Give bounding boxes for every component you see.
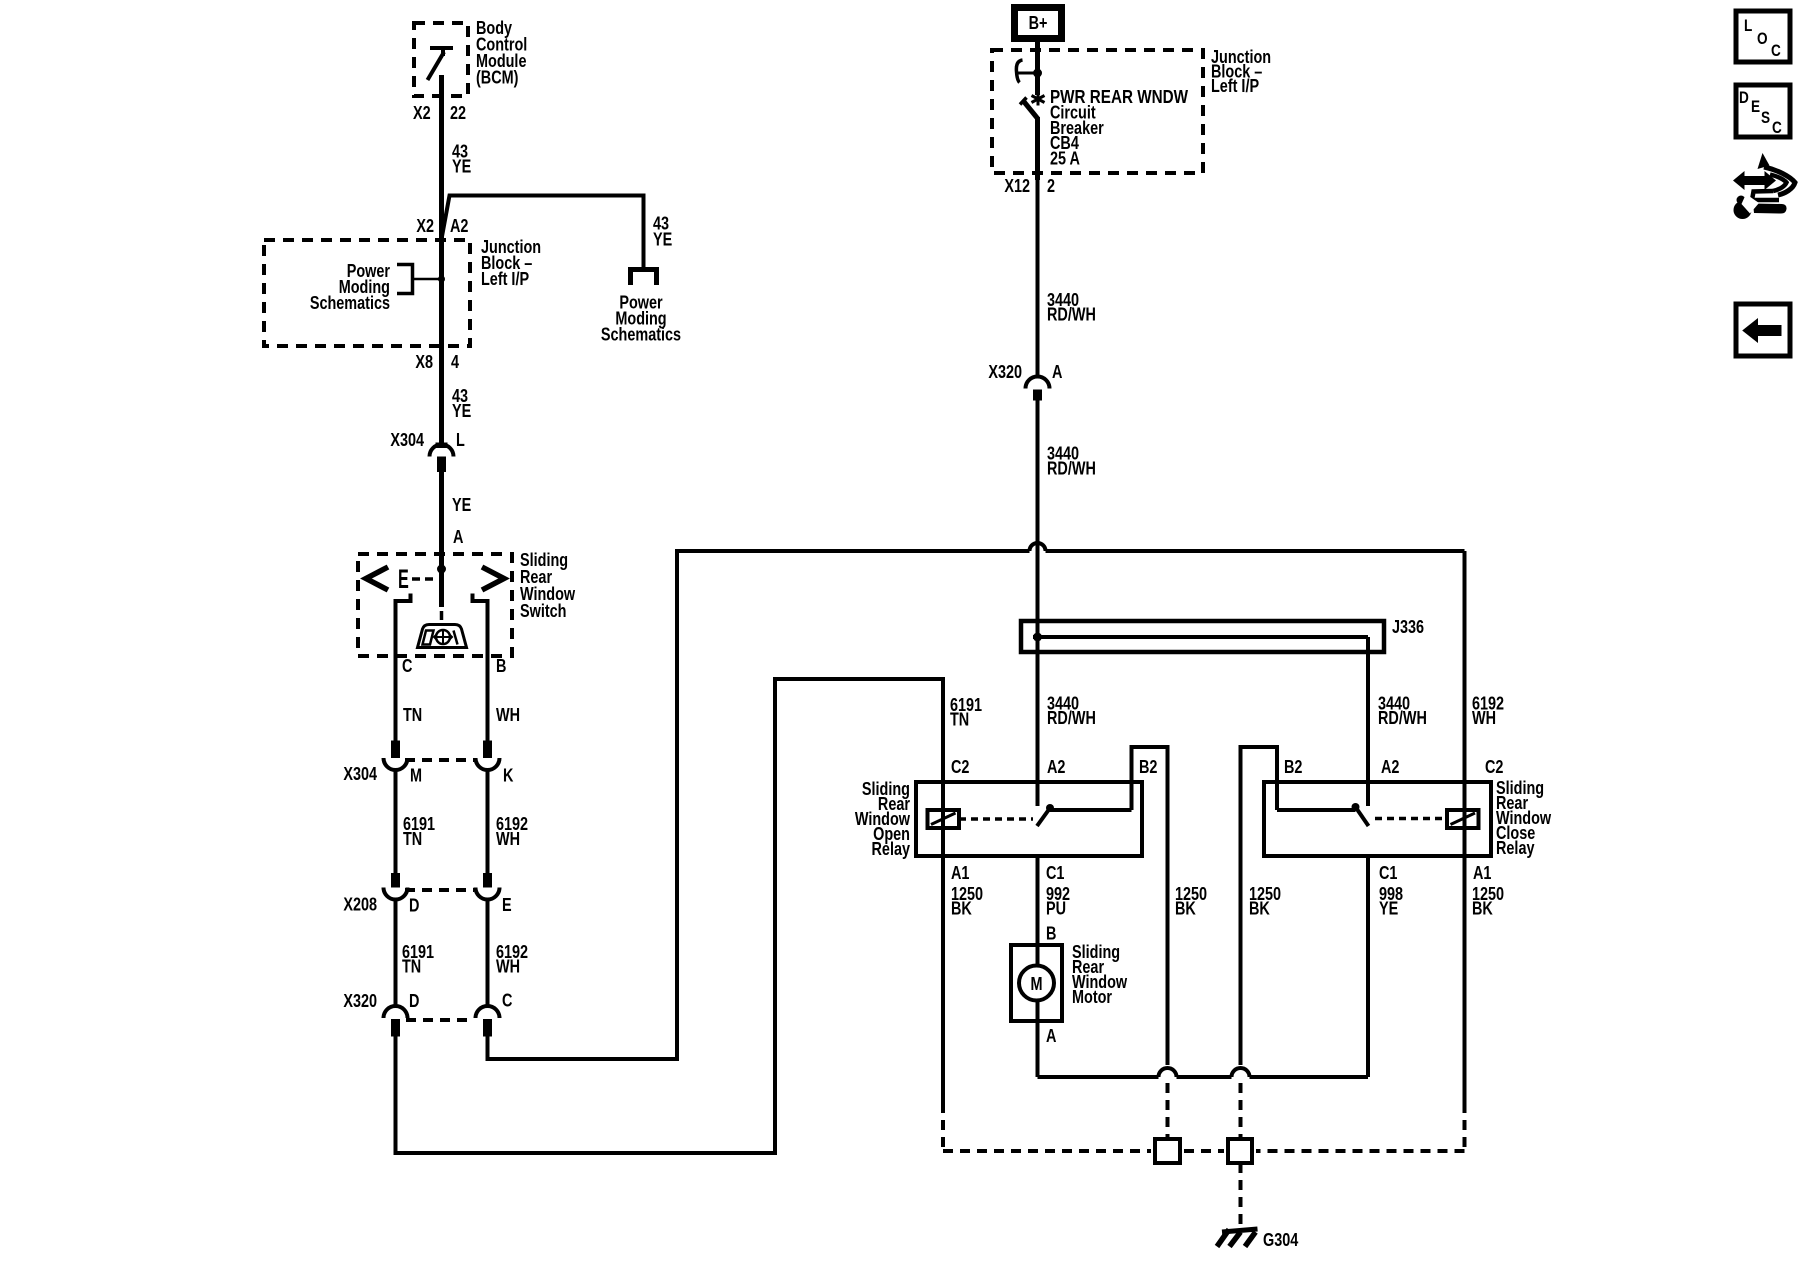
label J336 — [1392, 616, 1424, 637]
svg-text:M: M — [1030, 973, 1042, 994]
label Junction Block - Left I/P (right) — [1211, 46, 1271, 96]
svg-text:B2: B2 — [1284, 756, 1302, 777]
motor M1: Sliding Rear Window Motor — [1011, 945, 1062, 1021]
connector labels X208 D E — [343, 894, 511, 916]
svg-text:A: A — [1046, 1025, 1056, 1046]
junction block J3: Junction Block - Left I/P (right) dashed box — [992, 50, 1203, 173]
label G304 — [1263, 1229, 1299, 1250]
inline connector X320 pins D and C — [384, 1006, 500, 1036]
svg-text:D: D — [409, 990, 419, 1011]
wire 1250 BK close relay B2 (dashed to splice) — [1239, 1083, 1243, 1139]
svg-text:Left I/P: Left I/P — [481, 268, 529, 289]
value label YE — [452, 494, 471, 515]
label Power Moding Schematics (right branch) — [601, 292, 681, 345]
label PWR REAR WNDW Circuit Breaker CB4 25 A — [1050, 87, 1188, 169]
svg-text:BK: BK — [1249, 898, 1270, 919]
junction block J2: Junction Block - Left I/P (left) dashed box — [264, 240, 470, 346]
svg-text:C1: C1 — [1046, 862, 1064, 883]
svg-text:A1: A1 — [1473, 862, 1491, 883]
switch left throw chevron (open direction) — [366, 567, 388, 590]
svg-text:Motor: Motor — [1072, 986, 1113, 1007]
switch contact to pin B — [473, 594, 488, 657]
svg-text:O: O — [1757, 30, 1768, 49]
pin label B of motor — [1046, 923, 1056, 944]
inline connector X304 pins M and K — [384, 741, 500, 770]
value label 43 YE — [452, 141, 471, 177]
pin label A of motor — [1046, 1025, 1056, 1046]
svg-text:Relay: Relay — [1496, 837, 1535, 858]
pin X8 4 of junction block — [415, 351, 459, 372]
close relay contact: pivot, blade, feed to B2 — [1241, 747, 1369, 1065]
open relay C2-A1 wire through coil — [941, 782, 945, 1103]
BCM internal driver switch symbol — [428, 48, 454, 80]
svg-text:C: C — [1772, 119, 1782, 138]
inline connector X320 pin A — [1026, 377, 1050, 401]
label Sliding Rear Window Switch — [520, 549, 575, 621]
svg-text:X2: X2 — [416, 215, 434, 236]
value labels above relays: 6191 TN, 3440 RD/WH, 3440 RD/WH, 6192 WH — [950, 693, 1504, 730]
svg-text:TN: TN — [403, 704, 422, 725]
svg-text:Left I/P: Left I/P — [1211, 75, 1259, 96]
svg-text:4: 4 — [451, 351, 460, 372]
connector label X320 A — [988, 361, 1062, 382]
sliding window icon — [418, 625, 467, 648]
wire 998 YE motor A to close relay C1 (with hops over B2 wires) — [1038, 856, 1369, 1077]
svg-text:WH: WH — [496, 828, 520, 849]
wire 6191 TN X208D to X320D — [394, 898, 398, 1008]
value label 43 YE below X8 — [452, 385, 471, 421]
inline connector X208 pins D and E — [384, 874, 500, 900]
svg-text:L: L — [1744, 17, 1752, 36]
relay K2: Sliding Rear Window Close Relay box — [1264, 782, 1491, 856]
wire 1250 BK close relay A1 (dashed to splice) — [1256, 1103, 1465, 1151]
module U1: Body Control Module (BCM) dashed box — [414, 23, 468, 96]
junction dot of 3440 RD/WH at J336 — [1033, 633, 1042, 642]
connector label X304 L — [390, 429, 464, 450]
label Sliding Rear Window Close Relay — [1496, 777, 1551, 858]
svg-text:YE: YE — [452, 400, 471, 421]
svg-text:K: K — [503, 765, 513, 786]
label Sliding Rear Window Open Relay — [855, 778, 911, 859]
svg-text:A2: A2 — [1047, 756, 1065, 777]
wire 6192 WH X208E to X320C — [486, 898, 490, 1008]
wire 992 PU open relay C1 to motor B — [1036, 856, 1040, 966]
svg-text:C1: C1 — [1379, 862, 1397, 883]
svg-text:(BCM): (BCM) — [476, 67, 518, 88]
wire 43 YE through junction block — [439, 239, 444, 444]
svg-text:YE: YE — [452, 156, 471, 177]
close relay coil-to-contact dashed link — [1375, 817, 1447, 821]
value labels TN / WH — [403, 704, 520, 725]
wire 6191 TN from X320D around to open relay C2 — [396, 679, 944, 1153]
label Power Moding Schematics (inside junction block) — [310, 260, 391, 313]
svg-text:A2: A2 — [450, 215, 468, 236]
svg-text:X208: X208 — [343, 894, 377, 915]
wire 1250 BK open relay B2 (dashed to splice) — [1166, 1083, 1170, 1139]
splice S402 — [1228, 1139, 1252, 1163]
svg-text:X320: X320 — [988, 361, 1022, 382]
svg-text:A2: A2 — [1381, 756, 1399, 777]
switch S1: Sliding Rear Window Switch dashed box — [358, 554, 512, 656]
dashed wire splice to ground — [1239, 1163, 1243, 1228]
wire 3440 RD/WH from X320A down to open relay A2 — [1036, 400, 1040, 806]
svg-text:TN: TN — [403, 828, 422, 849]
svg-text:C: C — [1771, 42, 1781, 61]
value label 43 YE on branch — [653, 213, 672, 250]
wire 43 YE from BCM X2-22 down — [439, 75, 444, 240]
node X2 A2 at Junction Block — [416, 215, 468, 236]
wire branch to Power Moding Schematics (diagonal + horizontal + drop) — [442, 196, 644, 268]
svg-text:B: B — [1046, 923, 1056, 944]
value labels 1250 BK, 992 PU, 1250 BK, 1250 BK, 998 YE, 1250 BK — [951, 883, 1504, 919]
label Sliding Rear Window Motor — [1072, 941, 1127, 1007]
junction dot at switch pin A — [437, 565, 446, 574]
svg-text:G304: G304 — [1263, 1229, 1299, 1250]
value label 3440 RD/WH — [1047, 289, 1096, 325]
svg-text:S: S — [1761, 109, 1770, 128]
svg-text:BK: BK — [1472, 898, 1493, 919]
wire TN from switch C — [394, 656, 398, 741]
nav icon diagnostic arrows + wrench — [1733, 153, 1795, 219]
bus bracket to Power Moding Schematics — [397, 265, 442, 294]
svg-text:TN: TN — [950, 709, 969, 730]
svg-text:A1: A1 — [951, 862, 969, 883]
label Junction Block - Left I/P — [481, 236, 541, 289]
wire 6192 WH from X320C around to close relay C2 (with hop) — [488, 543, 1465, 1059]
svg-text:C: C — [502, 990, 512, 1011]
svg-text:C: C — [402, 655, 412, 676]
svg-text:X304: X304 — [343, 763, 377, 784]
svg-text:BK: BK — [951, 898, 972, 919]
svg-text:BK: BK — [1175, 898, 1196, 919]
wire 1250 BK open relay A1 (dashed to splice) — [943, 1103, 1151, 1151]
open relay coil — [928, 810, 960, 828]
svg-text:Schematics: Schematics — [310, 292, 390, 313]
pin labels A1 C1 / C1 A1 — [951, 862, 1491, 883]
switch contact to pin C — [396, 594, 411, 657]
svg-text:A: A — [453, 526, 463, 547]
svg-text:RD/WH: RD/WH — [1047, 304, 1096, 325]
value labels 6191 TN / 6192 WH (second) — [402, 941, 528, 977]
nav icon DESC — [1736, 85, 1790, 137]
svg-text:B+: B+ — [1029, 12, 1048, 33]
svg-text:C2: C2 — [1485, 756, 1503, 777]
wire YE to switch pin A — [439, 472, 444, 570]
svg-text:YE: YE — [452, 494, 471, 515]
inline connector X304 pin L — [430, 443, 454, 472]
nav icon back arrow — [1736, 304, 1790, 356]
pin labels C and B of switch — [402, 655, 506, 676]
relay K1: Sliding Rear Window Open Relay box — [916, 782, 1142, 856]
svg-text:YE: YE — [1379, 898, 1398, 919]
switch E position label with dashes — [398, 564, 433, 594]
svg-text:A: A — [1052, 361, 1062, 382]
svg-text:C2: C2 — [951, 756, 969, 777]
svg-text:X320: X320 — [343, 990, 377, 1011]
svg-text:RD/WH: RD/WH — [1378, 707, 1427, 728]
close relay C2-A1 wire through coil — [1463, 781, 1467, 1103]
svg-text:M: M — [410, 765, 422, 786]
svg-text:22: 22 — [450, 102, 466, 123]
switch common wire + actuator dashes — [439, 569, 444, 620]
svg-text:X2: X2 — [413, 102, 431, 123]
svg-text:YE: YE — [653, 229, 672, 250]
svg-text:X12: X12 — [1004, 175, 1030, 196]
wire 6192 WH X304K to X208E — [486, 769, 490, 874]
svg-text:WH: WH — [496, 704, 520, 725]
switch right throw chevron (close direction) — [482, 567, 504, 590]
svg-text:D: D — [1739, 89, 1749, 108]
off-page connector to Power Moding Schematics — [631, 270, 657, 286]
junction dot on 43 YE wire — [438, 276, 445, 283]
open relay coil-to-contact dashed link — [959, 817, 1033, 821]
pin X2 22 of BCM — [413, 102, 466, 123]
svg-text:RD/WH: RD/WH — [1047, 707, 1096, 728]
wire 3440 RD/WH breaker to X320A — [1036, 173, 1040, 378]
svg-text:WH: WH — [496, 956, 520, 977]
breaker element, contact and wire — [1016, 60, 1044, 180]
svg-text:B2: B2 — [1139, 756, 1157, 777]
value label 3440 RD/WH (second) — [1047, 443, 1096, 479]
svg-text:2: 2 — [1047, 175, 1055, 196]
svg-text:WH: WH — [1472, 707, 1496, 728]
open relay contact: pivot, blade, feed to B2 — [1037, 747, 1168, 1065]
svg-text:Schematics: Schematics — [601, 324, 681, 345]
connector labels X304 M K — [343, 763, 513, 786]
wire 6191 TN X304M to X208D — [394, 769, 398, 874]
svg-text:TN: TN — [402, 956, 421, 977]
svg-text:X8: X8 — [415, 351, 433, 372]
connector labels X320 D C — [343, 990, 512, 1012]
nav icon LOC — [1736, 11, 1790, 62]
svg-text:J336: J336 — [1392, 616, 1424, 637]
svg-text:E: E — [502, 894, 512, 915]
splice pack J336 bus — [1021, 621, 1384, 652]
close relay coil — [1447, 810, 1479, 828]
svg-text:PU: PU — [1046, 898, 1066, 919]
wire 3440 RD/WH from J336 to close relay A2 — [1366, 652, 1370, 806]
svg-text:D: D — [409, 895, 419, 916]
wire B+ to circuit breaker — [1035, 38, 1040, 75]
pin label A — [453, 526, 463, 547]
splice S401 — [1155, 1139, 1224, 1163]
svg-text:RD/WH: RD/WH — [1047, 458, 1096, 479]
svg-text:L: L — [456, 429, 465, 450]
svg-text:25 A: 25 A — [1050, 148, 1080, 169]
battery feed B+ — [1015, 8, 1062, 39]
svg-text:X304: X304 — [390, 429, 424, 450]
value labels 6191 TN / 6192 WH — [403, 813, 528, 849]
svg-text:E: E — [398, 564, 409, 594]
wire WH from switch B — [486, 656, 490, 741]
relay pin labels C2 A2 B2 / B2 A2 C2 — [951, 756, 1503, 777]
svg-text:Switch: Switch — [520, 600, 566, 621]
svg-text:Relay: Relay — [872, 838, 911, 859]
svg-text:B: B — [496, 655, 506, 676]
pin X12 2 — [1004, 175, 1055, 196]
svg-text:E: E — [1751, 98, 1760, 117]
BCM label text — [476, 17, 527, 88]
ground G304 symbol — [1217, 1229, 1258, 1247]
